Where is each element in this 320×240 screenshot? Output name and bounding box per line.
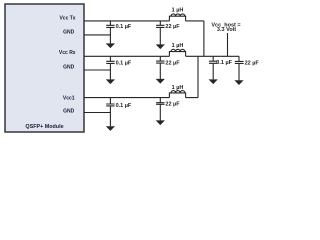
capacitor C1 0.1uF (Tx) bbox=[106, 21, 114, 44]
svg-text:3.3 Volt: 3.3 Volt bbox=[217, 27, 236, 33]
capacitor C5 0.1uF (Vcc1) bbox=[106, 98, 114, 127]
svg-text:GND: GND bbox=[63, 64, 75, 70]
pin label GND (Tx) bbox=[63, 30, 75, 36]
ground (C3) bbox=[106, 79, 115, 84]
svg-text:Vcc Rx: Vcc Rx bbox=[59, 50, 76, 56]
svg-text:22 µF: 22 µF bbox=[165, 60, 180, 66]
svg-text:QSFP+ Module: QSFP+ Module bbox=[25, 124, 63, 130]
inductor L3 1uH (Vcc1) bbox=[169, 91, 185, 98]
QSFP+ module block U1 bbox=[5, 4, 84, 132]
module caption QSFP+ Module bbox=[25, 124, 63, 130]
ground (C4) bbox=[156, 79, 165, 84]
capacitor C7 0.1uF (host) bbox=[209, 56, 217, 79]
svg-text:0.1 µF: 0.1 µF bbox=[116, 60, 132, 66]
wire Vcc1 row bbox=[84, 56, 198, 97]
pin label Vcc1 bbox=[63, 95, 75, 101]
svg-text:1 µH: 1 µH bbox=[172, 7, 184, 13]
value label C6 22 uF bbox=[165, 102, 180, 108]
capacitor C4 22uF (Rx) bbox=[156, 56, 164, 79]
wire Vcc Rx row / Vcc_host rail bbox=[84, 55, 239, 57]
net label Vcc_host = 3.3 Volt bbox=[211, 22, 240, 33]
value label C4 22 uF bbox=[165, 60, 180, 66]
svg-text:1 µH: 1 µH bbox=[172, 43, 184, 49]
inductor L2 1uH (Rx) bbox=[169, 49, 185, 56]
wire Vcc Tx row bbox=[84, 21, 204, 56]
svg-text:22 µF: 22 µF bbox=[245, 60, 260, 66]
ground (C6) bbox=[156, 120, 165, 125]
wire leader from Vcc_host label to rail bbox=[227, 33, 229, 56]
svg-text:Vcc Tx: Vcc Tx bbox=[59, 15, 75, 21]
svg-text:1 µH: 1 µH bbox=[172, 85, 184, 91]
value label C8 22 uF bbox=[245, 60, 260, 66]
value label L1 1 uH bbox=[172, 7, 184, 13]
svg-text:22 µF: 22 µF bbox=[165, 24, 180, 30]
wire GND Vcc1 stub bbox=[84, 112, 110, 114]
value label C2 22 uF bbox=[165, 24, 180, 30]
pin label GND (Vcc1) bbox=[63, 109, 75, 115]
value label L3 1 uH bbox=[172, 85, 184, 91]
ground (C8) bbox=[234, 80, 243, 85]
svg-text:0.1 µF: 0.1 µF bbox=[116, 103, 132, 109]
svg-text:0.1 µF: 0.1 µF bbox=[216, 60, 232, 66]
svg-text:GND: GND bbox=[63, 109, 75, 115]
capacitor C6 22uF (Vcc1) bbox=[156, 98, 164, 121]
svg-text:GND: GND bbox=[63, 30, 75, 36]
pin label GND (Rx) bbox=[63, 64, 75, 70]
value label L2 1 uH bbox=[172, 43, 184, 49]
ground (C2) bbox=[156, 44, 165, 49]
value label C5 0.1 uF bbox=[116, 103, 132, 109]
capacitor C3 0.1uF (Rx) bbox=[106, 56, 114, 79]
svg-text:Vcc1: Vcc1 bbox=[63, 95, 75, 101]
svg-text:22 µF: 22 µF bbox=[165, 102, 180, 108]
wire GND Rx stub bbox=[84, 69, 110, 71]
svg-text:0.1 µF: 0.1 µF bbox=[116, 24, 132, 30]
capacitor C2 22uF (Tx) bbox=[156, 21, 164, 45]
value label C1 0.1 uF bbox=[116, 24, 132, 30]
inductor L1 1uH (Tx) bbox=[169, 14, 185, 21]
wire GND Tx stub bbox=[84, 34, 110, 36]
ground (C7) bbox=[209, 79, 218, 84]
value label C7 0.1 uF bbox=[216, 60, 232, 66]
ground (C5) bbox=[106, 126, 115, 131]
pin label Vcc Tx bbox=[59, 15, 75, 21]
pin label Vcc Rx bbox=[59, 50, 76, 56]
value label C3 0.1 uF bbox=[116, 60, 132, 66]
capacitor C8 22uF (host) bbox=[235, 56, 244, 80]
ground (C1) bbox=[106, 43, 115, 48]
